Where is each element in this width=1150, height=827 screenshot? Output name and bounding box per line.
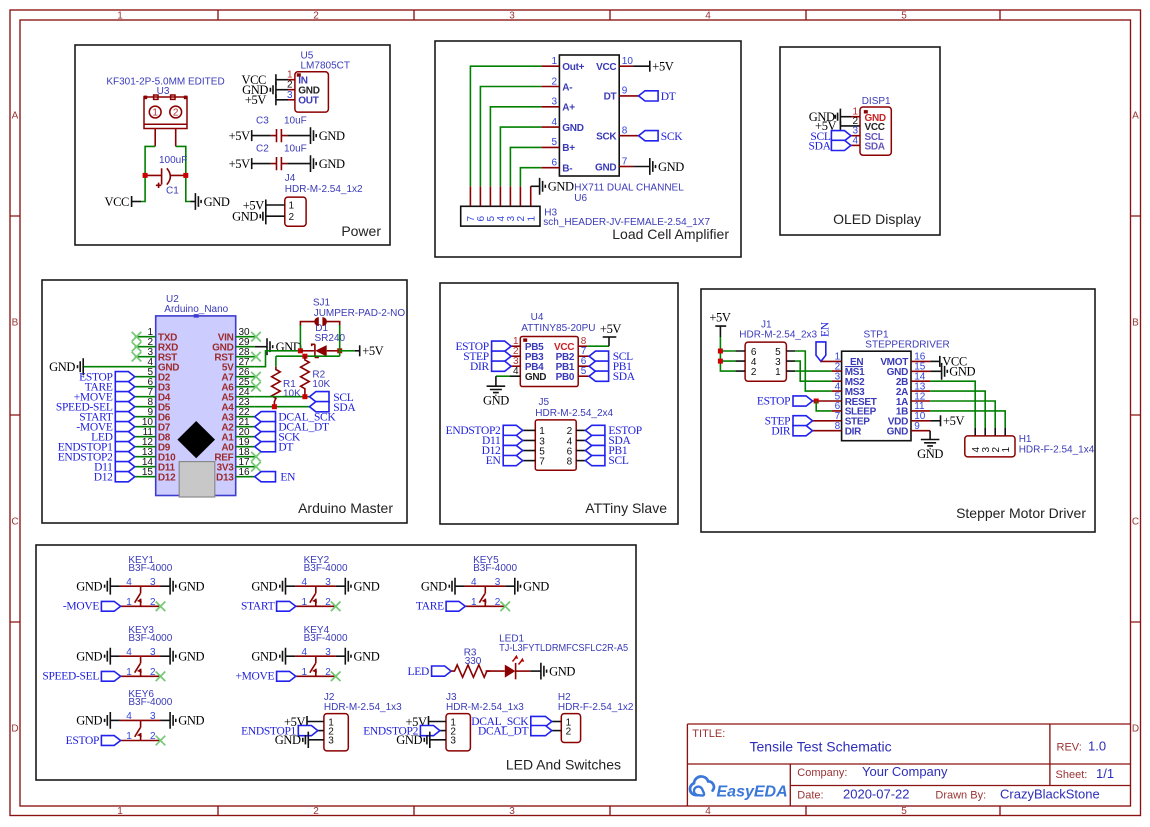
svg-text:A-: A-	[562, 82, 572, 93]
svg-text:TARE: TARE	[416, 601, 444, 613]
port DIR (U4)	[492, 361, 512, 371]
wire U3 pin1 to VCC node	[141, 146, 155, 201]
port SCK	[639, 131, 659, 141]
GND flag (C3)	[311, 127, 317, 144]
GND flag (KEY3 pin4)	[105, 648, 111, 665]
port ENDSTOP1 (U2 pin 12)	[115, 442, 135, 452]
capacitor C1 (100uF polarized)	[161, 168, 163, 184]
port DIR (stepper)	[793, 426, 813, 436]
U2 pin 15 D12 (left)	[135, 476, 156, 478]
svg-text:D: D	[11, 724, 18, 735]
J2 pin 2	[318, 730, 324, 732]
wire J1.5 to MS3	[795, 351, 832, 391]
J2 pin 1	[307, 721, 324, 723]
port ESTOP (U2 pin 5)	[115, 372, 135, 382]
DISP1 pin 4 SDA	[851, 144, 860, 146]
svg-text:A: A	[12, 111, 19, 122]
svg-text:EN: EN	[820, 321, 832, 337]
svg-text:3: 3	[495, 577, 501, 588]
svg-text:2: 2	[150, 667, 156, 678]
U6 pin 4 GND	[541, 126, 559, 128]
svg-text:EasyEDA: EasyEDA	[717, 784, 788, 801]
GND flag (KEY5 pin4)	[449, 578, 455, 595]
svg-text:1: 1	[152, 108, 158, 119]
U4 pin 3 PB4	[511, 365, 520, 367]
port ESTOP (KEY6)	[101, 736, 120, 746]
svg-text:SDA: SDA	[333, 402, 356, 414]
svg-text:GND: GND	[49, 360, 75, 374]
GND flag (U6 pin7)	[650, 158, 656, 175]
svg-text:2: 2	[150, 731, 156, 742]
VCC flag (U3)	[132, 201, 141, 203]
svg-text:2: 2	[289, 212, 295, 223]
svg-text:1: 1	[302, 597, 308, 608]
svg-text:4: 4	[126, 647, 132, 658]
port STEP (U4)	[492, 351, 512, 361]
title block lines	[687, 724, 1130, 806]
wire C2 right	[287, 163, 310, 165]
U5 pin 1 IN	[276, 79, 288, 81]
U2 pin 22 A3 (right)	[236, 416, 255, 418]
U2 pin 24 A5 (right)	[236, 396, 255, 398]
display DISP1 body	[860, 107, 891, 155]
svg-text:2: 2	[751, 367, 757, 378]
svg-text:+5V: +5V	[362, 344, 383, 358]
GND flag (U2 pin4)	[78, 358, 84, 375]
svg-text:8: 8	[567, 456, 573, 467]
wire H3.3 to U6.5	[510, 147, 541, 186]
svg-text:10uF: 10uF	[284, 116, 307, 127]
U4 pin 2 PB3	[511, 355, 520, 357]
svg-text:1: 1	[126, 597, 132, 608]
pushbutton KEY1 contacts	[120, 586, 161, 606]
svg-text:DT: DT	[661, 91, 676, 103]
svg-text:GND: GND	[251, 580, 277, 594]
svg-text:EN: EN	[280, 471, 296, 483]
GND flag earth (U4)	[487, 386, 506, 395]
J3 pin 2	[440, 730, 446, 732]
junction R2 top	[302, 354, 307, 359]
U2 USB connector rectangle	[179, 462, 215, 497]
junction J1 pin4	[718, 359, 723, 364]
svg-text:SPEED-SEL: SPEED-SEL	[42, 671, 99, 683]
svg-text:Arduino_Nano: Arduino_Nano	[164, 304, 228, 315]
svg-text:SDA: SDA	[808, 141, 831, 153]
STP1 left pin lines	[813, 361, 842, 430]
svg-text:D12: D12	[94, 471, 113, 483]
junction R2 bottom	[302, 394, 307, 399]
pushbutton KEY3 contacts	[120, 656, 161, 676]
wire C3 right	[287, 135, 310, 137]
VCC flag (U5 pin1)	[275, 74, 277, 85]
pushbutton KEY5 contacts	[465, 586, 506, 606]
U2 pin 6 D3 (left)	[135, 386, 156, 388]
svg-text:HDR-M-2.54_1x2: HDR-M-2.54_1x2	[285, 184, 363, 195]
GND flag (KEY5 pin3)	[505, 585, 515, 587]
wire U2 5V to +5V rail	[255, 351, 298, 367]
U2 pin 9 D6 (left)	[135, 416, 156, 418]
junction C1 right	[183, 173, 188, 178]
svg-text:1: 1	[471, 597, 477, 608]
pushbutton KEY6 contacts	[120, 720, 161, 740]
GND flag (KEY4 pin4)	[280, 648, 286, 665]
GND flag (KEY2 pin4)	[280, 578, 286, 595]
U2 pin 7 D4 (left)	[135, 396, 156, 398]
port +MOVE (U2 pin 7)	[115, 392, 135, 402]
capacitor C3 (10uF)	[271, 135, 287, 137]
wire +5V to J1 pins	[720, 337, 735, 371]
svg-text:DISP1: DISP1	[862, 96, 891, 107]
svg-text:HDR-M-2.54_1x3: HDR-M-2.54_1x3	[324, 702, 402, 713]
svg-text:10uF: 10uF	[284, 144, 307, 155]
U3 terminal circle 1	[149, 106, 161, 118]
EasyEDA logo cloud	[690, 776, 714, 795]
svg-text:DCAL_DT: DCAL_DT	[478, 725, 529, 737]
port LED	[432, 666, 452, 676]
svg-text:3: 3	[509, 806, 515, 817]
DISP1 pin 3 SCL	[851, 135, 860, 137]
svg-text:GND: GND	[658, 160, 684, 174]
wire 2B to H1.4	[930, 381, 975, 428]
svg-text:4: 4	[852, 135, 858, 146]
DISP1 pin 1 GND	[841, 116, 851, 118]
GND flag (STP1 pin15)	[942, 363, 948, 380]
svg-text:1: 1	[551, 56, 557, 67]
svg-text:GND: GND	[204, 195, 230, 209]
wire SCL (A5)	[255, 396, 310, 398]
IC U6 HX711 body	[559, 55, 619, 176]
svg-text:10K: 10K	[283, 389, 301, 400]
svg-text:GND: GND	[917, 447, 943, 461]
port +MOVE (KEY4)	[277, 671, 296, 681]
svg-text:+5V: +5V	[943, 414, 964, 428]
U6 pin 6 B-	[541, 167, 559, 169]
U2 pin 3 RST (left)	[135, 356, 156, 358]
wire R1/R2 top rail	[276, 355, 340, 357]
U6 pin 9 DT	[619, 95, 638, 97]
svg-text:3: 3	[150, 577, 156, 588]
port SPEED-SEL (U2 pin 8)	[115, 402, 135, 412]
U2 pin 12 D9 (left)	[135, 446, 156, 448]
svg-text:1: 1	[126, 667, 132, 678]
port SCK (Arduino)	[255, 432, 276, 442]
svg-text:GND: GND	[549, 664, 575, 678]
svg-text:2: 2	[313, 11, 319, 22]
port ENDSTOP1 (J2)	[298, 726, 318, 736]
U6 pin 7 GND	[619, 166, 633, 168]
capacitor C2 (10uF)	[271, 163, 287, 165]
svg-text:HDR-M-2.54_2x4: HDR-M-2.54_2x4	[535, 408, 613, 419]
U6 pin 3 A+	[541, 106, 559, 108]
svg-text:10K: 10K	[312, 379, 330, 390]
svg-text:330: 330	[465, 656, 482, 667]
svg-text:B3F-4000: B3F-4000	[304, 633, 348, 644]
svg-text:C: C	[1132, 517, 1139, 528]
port SCL (DISP1)	[831, 131, 851, 141]
svg-text:GND: GND	[319, 129, 345, 143]
port D12 (U2 pin 15)	[115, 472, 135, 482]
U4 pin 7 PB2	[578, 355, 589, 357]
J1 pins 2/1	[736, 370, 796, 372]
header J3 body	[446, 714, 470, 751]
J5 pin 2	[576, 429, 585, 431]
svg-text:J4: J4	[285, 173, 296, 184]
svg-text:9: 9	[914, 421, 920, 432]
no-connect X (KEY3 pin2)	[156, 672, 166, 682]
U6 pin 1 Out+	[541, 65, 559, 67]
U2 pin 19 A0 (right)	[236, 446, 255, 448]
STP1 pin 12 1A	[911, 400, 930, 402]
port ENDSTOP2 (U2 pin 13)	[115, 452, 135, 462]
wire R1 top lead	[275, 356, 277, 367]
svg-text:Your Company: Your Company	[862, 764, 948, 779]
svg-text:GND: GND	[354, 580, 380, 594]
svg-text:VCC: VCC	[596, 62, 616, 73]
U6 pin 2 A-	[541, 86, 559, 88]
GND flag (KEY1 pin3)	[161, 585, 171, 587]
svg-text:SCK: SCK	[596, 132, 617, 143]
svg-text:3: 3	[325, 647, 331, 658]
svg-text:GND: GND	[525, 372, 546, 383]
wire H3.2 to U6.6	[520, 168, 541, 187]
svg-text:+5V: +5V	[709, 310, 730, 324]
svg-text:DIR: DIR	[845, 427, 862, 438]
port ENDSTOP2 (J3)	[420, 726, 440, 736]
svg-text:TITLE:: TITLE:	[692, 728, 725, 740]
J2 pin 3	[308, 739, 324, 741]
+5V flag (J3)	[428, 716, 430, 727]
resistor R2 10K	[301, 356, 310, 397]
svg-text:3: 3	[551, 97, 557, 108]
svg-text:+5V: +5V	[652, 60, 673, 74]
svg-text:GND: GND	[178, 650, 204, 664]
wire C3 left	[252, 135, 271, 137]
GND flag (J2)	[303, 732, 309, 748]
port ESTOP (J5)	[585, 425, 605, 435]
MCU U2 Arduino_Nano body	[156, 316, 236, 496]
svg-text:1.0: 1.0	[1088, 739, 1106, 754]
J5 pin 1	[523, 429, 536, 431]
svg-text:GND: GND	[483, 394, 509, 408]
svg-text:4: 4	[126, 577, 132, 588]
svg-text:sch_HEADER-JV-FEMALE-2.54_1X7: sch_HEADER-JV-FEMALE-2.54_1X7	[543, 217, 710, 228]
port -MOVE (KEY1)	[101, 601, 120, 611]
U2 pin 13 D10 (left)	[135, 456, 156, 458]
svg-text:GND: GND	[421, 580, 447, 594]
port SDA (DISP1)	[831, 140, 851, 150]
svg-text:2: 2	[495, 597, 501, 608]
GND flag (KEY3 pin3)	[161, 655, 171, 657]
DISP1 pin 2 VCC	[841, 125, 860, 127]
svg-text:B3F-4000: B3F-4000	[473, 563, 517, 574]
svg-text:LED: LED	[408, 666, 429, 678]
port -MOVE (U2 pin 10)	[115, 422, 135, 432]
+5V flag (U6 VCC)	[649, 61, 651, 72]
capacitor C1 leads	[145, 174, 186, 176]
header J5 body	[535, 420, 576, 470]
U6 pin 10 VCC	[619, 65, 633, 67]
U4 pin 8 VCC	[578, 345, 587, 347]
U2 pin 5 D2 (left)	[135, 376, 156, 378]
svg-text:DT: DT	[278, 441, 293, 453]
svg-text:1: 1	[117, 806, 123, 817]
svg-text:J5: J5	[539, 397, 550, 408]
header H1 body	[965, 436, 1015, 457]
svg-text:D: D	[1132, 724, 1139, 735]
wire H3.4 to U6.4	[500, 127, 541, 186]
port STEP (stepper)	[793, 416, 813, 426]
wire to +5V flag	[340, 350, 355, 352]
+5V flag (J4)	[265, 200, 267, 211]
GND flag (J4)	[260, 208, 266, 224]
svg-text:ATTINY85-20PU: ATTINY85-20PU	[521, 323, 595, 334]
GND flag (C2)	[311, 155, 317, 172]
port D11 (J5)	[503, 435, 523, 445]
port DT	[639, 91, 659, 101]
STP1 pin 16 VMOT	[911, 360, 930, 362]
+5V flag (U5 pin3)	[275, 94, 277, 105]
resistor R1 10K	[272, 367, 281, 407]
port TARE (KEY5)	[446, 601, 465, 611]
wire U4 VCC to +5V	[587, 345, 609, 347]
pushbutton KEY4 contacts	[295, 656, 336, 676]
svg-text:7: 7	[539, 456, 545, 467]
svg-text:ESTOP: ESTOP	[66, 735, 99, 747]
svg-text:4: 4	[471, 577, 477, 588]
connector U3 KF301-2P body	[144, 97, 187, 129]
U2 pin 17 3V3 (right)	[236, 466, 255, 468]
U2 pin 4 GND (left)	[83, 366, 156, 368]
svg-text:CrazyBlackStone: CrazyBlackStone	[1000, 787, 1100, 802]
U3 pin stubs	[155, 129, 176, 147]
LED LED1	[505, 665, 516, 678]
resistor R3 330	[451, 665, 490, 677]
svg-text:GND: GND	[76, 580, 102, 594]
svg-text:D12: D12	[158, 472, 176, 483]
svg-text:1: 1	[775, 367, 781, 378]
svg-text:-MOVE: -MOVE	[63, 601, 99, 613]
svg-text:GND: GND	[319, 157, 345, 171]
junction J1 pin6	[718, 349, 723, 354]
wire 2A to H1.3	[930, 391, 985, 428]
svg-text:Date:: Date:	[797, 790, 823, 802]
svg-text:2: 2	[325, 597, 331, 608]
svg-text:Power: Power	[341, 223, 381, 239]
svg-text:1: 1	[302, 667, 308, 678]
no-connect X (KEY4 pin2)	[331, 672, 341, 682]
svg-text:PB0: PB0	[556, 372, 575, 383]
wire U6 VCC to +5V	[633, 65, 650, 67]
port DCAL_DT (Arduino)	[255, 422, 276, 432]
svg-text:2: 2	[325, 667, 331, 678]
svg-text:D13: D13	[216, 472, 234, 483]
svg-text:10: 10	[622, 56, 634, 67]
svg-text:B3F-4000: B3F-4000	[128, 633, 172, 644]
svg-text:OUT: OUT	[298, 96, 318, 107]
frame tick marks	[217, 10, 219, 816]
block box ATTiny Slave	[440, 283, 678, 524]
H2 pin 1	[552, 721, 562, 723]
svg-text:Load Cell Amplifier: Load Cell Amplifier	[612, 226, 729, 242]
svg-text:DIR: DIR	[771, 425, 791, 437]
svg-text:3: 3	[325, 577, 331, 588]
svg-text:SR240: SR240	[315, 333, 346, 344]
svg-text:7: 7	[622, 156, 628, 167]
U2 ICSP diamond	[177, 421, 215, 458]
GND flag earth (STP1 pin9)	[921, 440, 940, 449]
svg-text:3: 3	[150, 711, 156, 722]
junction R1 bottom	[272, 404, 277, 409]
U5 pin 2 GND	[276, 89, 288, 91]
GND flag (KEY6 pin3)	[161, 719, 171, 721]
svg-text:9: 9	[622, 86, 628, 97]
U6 pin 5 B+	[541, 146, 559, 148]
svg-text:LM7805CT: LM7805CT	[301, 61, 350, 72]
svg-text:DT: DT	[604, 92, 617, 103]
block box Arduino Master	[42, 280, 407, 523]
svg-text:B3F-4000: B3F-4000	[304, 563, 348, 574]
svg-text:GND: GND	[354, 650, 380, 664]
svg-text:4: 4	[302, 577, 308, 588]
svg-text:A+: A+	[562, 103, 575, 114]
no-connect X marks U2 right pins	[251, 332, 261, 342]
svg-text:HDR-M-2.54_2x3: HDR-M-2.54_2x3	[739, 329, 817, 340]
svg-text:START: START	[241, 601, 275, 613]
diode D1 cathode wire	[327, 350, 340, 352]
header J1 body	[745, 342, 786, 381]
GND flag (KEY6 pin4)	[105, 712, 111, 729]
svg-text:VCC: VCC	[104, 195, 129, 209]
svg-text:100uF: 100uF	[159, 155, 187, 166]
svg-text:+5V: +5V	[600, 322, 621, 336]
svg-text:B: B	[1132, 318, 1139, 329]
wire H3.5 to U6.3	[490, 107, 541, 187]
port START (U2 pin 9)	[115, 412, 135, 422]
block box OLED Display	[780, 47, 940, 235]
svg-text:TJ-L3FYTLDRMFCSFLC2R-A5: TJ-L3FYTLDRMFCSFLC2R-A5	[499, 643, 628, 654]
svg-text:GND: GND	[949, 365, 975, 379]
MCU U4 ATTINY85 body	[520, 337, 578, 387]
U6 pin 8 SCK	[619, 135, 638, 137]
svg-text:3: 3	[287, 90, 293, 101]
port SCL (Arduino)	[310, 392, 330, 402]
svg-text:8: 8	[622, 126, 628, 137]
+5V flag (U4)	[603, 336, 617, 338]
header J4 body	[285, 197, 306, 226]
wire J1.3 to MS2	[795, 361, 832, 381]
svg-text:6: 6	[551, 158, 557, 169]
svg-text:GND: GND	[76, 714, 102, 728]
svg-text:1: 1	[526, 216, 537, 222]
svg-text:2: 2	[551, 76, 557, 87]
svg-text:B3F-4000: B3F-4000	[128, 697, 172, 708]
J5 pin 7	[523, 460, 536, 462]
wire C2 left	[252, 163, 271, 165]
svg-text:5: 5	[901, 806, 907, 817]
svg-text:U4: U4	[531, 312, 544, 323]
U2 pin 2 RXD (left)	[135, 346, 156, 348]
J5 pin 5	[523, 450, 536, 452]
svg-text:+5V: +5V	[229, 157, 250, 171]
schottky diode D1 anode wire	[300, 350, 314, 352]
GND flag (KEY1 pin4)	[105, 578, 111, 595]
port EN (stepper, rotated)	[816, 342, 826, 362]
svg-text:STEPPERDRIVER: STEPPERDRIVER	[865, 339, 949, 350]
svg-text:B+: B+	[562, 143, 575, 154]
svg-text:Stepper Motor Driver: Stepper Motor Driver	[956, 505, 1086, 521]
svg-text:4: 4	[126, 711, 132, 722]
svg-text:Arduino Master: Arduino Master	[298, 500, 393, 516]
